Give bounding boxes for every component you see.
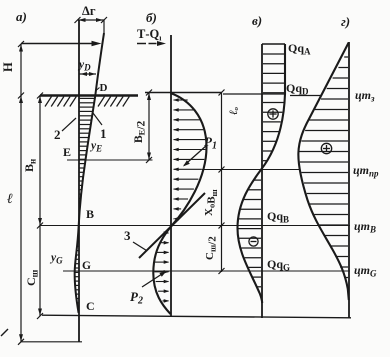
svg-text:D: D: [100, 82, 108, 94]
svg-text:а): а): [16, 9, 27, 24]
svg-text:2: 2: [54, 127, 61, 142]
svg-text:С: С: [86, 299, 95, 313]
svg-text:G: G: [82, 260, 91, 272]
svg-text:Е: Е: [63, 145, 71, 159]
svg-text:ℓ: ℓ: [7, 192, 13, 207]
svg-text:ℓₒ: ℓₒ: [228, 107, 240, 115]
svg-text:в): в): [252, 13, 262, 28]
svg-text:б): б): [146, 10, 157, 25]
svg-text:1: 1: [100, 126, 107, 141]
svg-text:г): г): [341, 14, 350, 29]
svg-text:3: 3: [124, 228, 131, 243]
svg-text:Н: Н: [1, 62, 15, 72]
svg-text:Δг: Δг: [82, 4, 96, 18]
svg-text:В: В: [86, 207, 94, 221]
svg-text:Т-Qı: Т-Qı: [137, 27, 162, 43]
